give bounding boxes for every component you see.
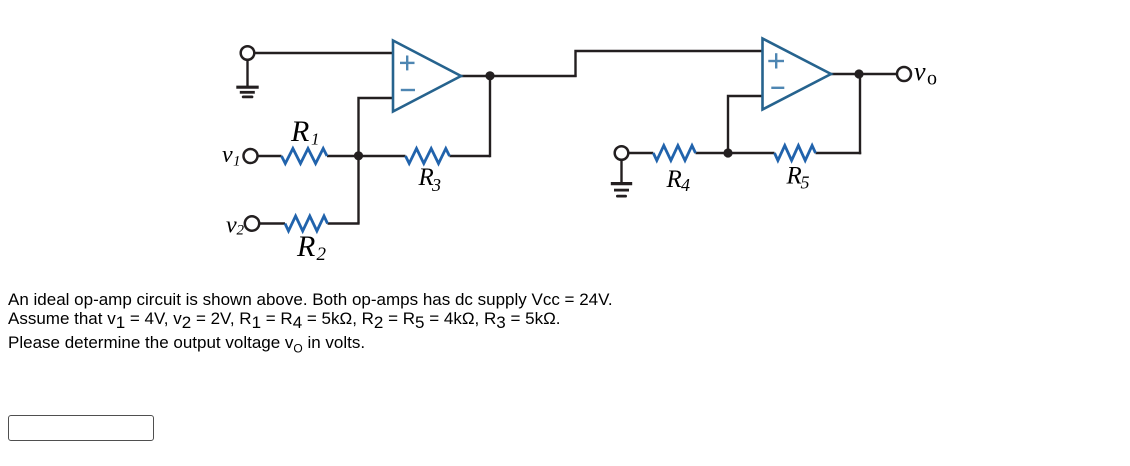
resistor R4 [653,146,695,161]
resistor R5 [775,146,816,161]
resistor R1 [282,149,328,164]
resistor R2 [285,216,328,231]
svg-text:1: 1 [233,154,241,170]
svg-text:v: v [226,213,237,239]
svg-text:R: R [290,115,309,148]
svg-text:o: o [927,68,937,90]
svg-text:v: v [222,142,233,168]
grounded terminal for R4 [615,146,629,160]
wire: R4 to node B to R5 [696,152,775,154]
svg-text:4: 4 [681,175,690,195]
wire: U1 output to step [460,75,577,77]
svg-text:R: R [296,230,315,263]
wire: U1 inverting input to node A [359,98,394,156]
svg-text:5: 5 [801,173,810,193]
svg-text:3: 3 [431,175,441,195]
problem statement line 2 [8,309,561,329]
ground [611,160,632,196]
wire: R5 to output riser [816,152,862,154]
wire: R2 to vertical riser [328,222,360,224]
ground terminal top-left [241,46,255,60]
terminal vo [897,67,911,81]
svg-text:2: 2 [237,223,245,239]
svg-text:2: 2 [317,244,327,265]
svg-text:1: 1 [311,130,320,149]
terminal v2 [245,216,259,230]
wire: grounded terminal to R4 [628,152,653,154]
answer input box [8,415,154,441]
wire: riser from R5 up to U2 output node [859,74,861,154]
U2 output junction dot [854,69,863,78]
wire: R1 to node A to R3 [327,155,406,157]
wire: R3 to U1 output riser [450,155,491,157]
resistor R3 [406,149,450,164]
wire: v1 terminal to R1 [258,155,282,157]
op-amp U1 [393,41,461,112]
wire: step up and across to U2 + input [576,51,763,77]
wire: U2 output to vo terminal [830,73,897,75]
node A junction dot [354,151,363,160]
ground [236,60,258,97]
op-amp U2 [763,39,832,110]
svg-text:R: R [666,166,682,193]
node B junction dot [723,148,732,157]
svg-text:v: v [914,57,926,86]
problem statement line 3 [8,333,365,353]
problem statement line 1 [8,290,613,310]
wire: node A down to v2 row [357,156,359,224]
wire: top terminal to op-amp U1 + input [254,52,393,54]
U1 output junction dot [485,71,494,80]
wire: riser from R3 up to U1 output node [489,76,491,157]
wire: U2 inverting input to node B [728,96,763,153]
wire: v2 terminal to R2 [259,222,285,224]
svg-text:R: R [786,163,802,190]
terminal v1 [244,149,258,163]
